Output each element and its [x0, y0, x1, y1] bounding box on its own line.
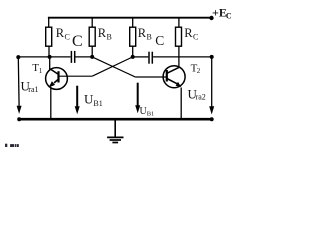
wire C2 to right output column — [153, 56, 212, 58]
node dot Ura1 bottom — [17, 117, 21, 121]
wire T1 emitter lead — [50, 88, 52, 118]
capacitor C1 left plate — [70, 51, 72, 63]
capacitor C1 right plate — [74, 51, 76, 63]
wire RC2 top lead — [178, 18, 180, 28]
wire cross-coupling diagonal RB1 to T2 base — [92, 57, 136, 77]
arrow Ura1 measurement line — [17, 57, 20, 107]
node dot left Ura1 top — [16, 55, 20, 59]
svg-text:C: C — [193, 32, 198, 41]
svg-text:R: R — [138, 26, 147, 40]
capacitor C2 right plate — [151, 52, 153, 64]
wire T1 base lead — [59, 75, 93, 77]
svg-text:1: 1 — [39, 67, 43, 75]
wire bottom ground rail — [18, 118, 213, 121]
svg-text:C: C — [155, 33, 164, 48]
arrow UB1 right — [137, 83, 139, 106]
svg-text:B1: B1 — [147, 111, 155, 118]
svg-text:R: R — [184, 26, 193, 40]
wire RB1 top lead — [91, 18, 93, 28]
wire RB1 bottom lead — [91, 46, 93, 57]
arrow Ura2 measurement line — [211, 57, 213, 107]
transistor T1 emitter diagonal with arrow — [54, 79, 59, 83]
node dot RB1 bottom — [90, 55, 94, 59]
svg-text:2: 2 — [197, 67, 201, 75]
transistor T1 collector diagonal — [50, 69, 59, 75]
wire T2 base lead — [136, 76, 168, 78]
svg-text:C: C — [72, 33, 83, 50]
svg-text:C: C — [65, 32, 70, 41]
wire cross-coupling diagonal RB2 to T1 base — [92, 57, 133, 76]
svg-text:B1: B1 — [93, 99, 102, 108]
svg-text:B: B — [147, 32, 152, 41]
transistor T2 collector diagonal — [167, 67, 179, 73]
node dot T1 collector junction — [48, 55, 52, 59]
wire C1 to RB1 node — [76, 56, 93, 58]
wire left output column Ura1 horizontal — [18, 56, 71, 58]
svg-text:ra2: ra2 — [196, 93, 206, 102]
resistor RC2 body — [176, 27, 182, 46]
wire RC1 top lead — [48, 18, 50, 28]
node dot RB2 bottom — [131, 55, 135, 59]
wire RB2 top lead — [132, 18, 134, 28]
svg-text:B: B — [107, 32, 112, 41]
svg-text:ra1: ra1 — [28, 85, 38, 94]
node dot Ura2 bottom — [210, 117, 214, 121]
transistor T1 base bar — [57, 71, 59, 82]
node dot right Ura2 top — [210, 55, 214, 59]
transistor T1 circle — [46, 68, 68, 90]
svg-text:R: R — [98, 26, 107, 40]
node +Ec junction dot — [209, 16, 213, 20]
resistor RB1 body — [89, 27, 95, 46]
svg-text:R: R — [56, 26, 65, 40]
transistor T2 emitter diagonal with arrow — [167, 79, 177, 84]
wire T2 emitter lead — [180, 88, 182, 119]
resistor RB2 body — [130, 27, 136, 46]
wire RB2 node to C2 — [133, 56, 149, 58]
transistor T2 circle — [163, 66, 185, 88]
capacitor C2 left plate — [148, 52, 150, 64]
arrow UB1 left — [76, 86, 78, 107]
svg-text:C: C — [226, 11, 232, 20]
wire top supply rail — [48, 17, 212, 19]
wire T1 collector lead — [49, 57, 51, 70]
resistor RC1 body — [46, 27, 52, 46]
wire RC1 bottom lead — [48, 46, 50, 57]
wire RB2 bottom lead — [132, 46, 134, 57]
transistor T2 base bar — [166, 70, 168, 82]
svg-text:+E: +E — [212, 6, 227, 20]
ground symbol — [114, 120, 116, 137]
wire RC2 bottom lead to T2 collector — [178, 46, 180, 67]
watermark text fragment bottom-left — [5, 144, 7, 148]
